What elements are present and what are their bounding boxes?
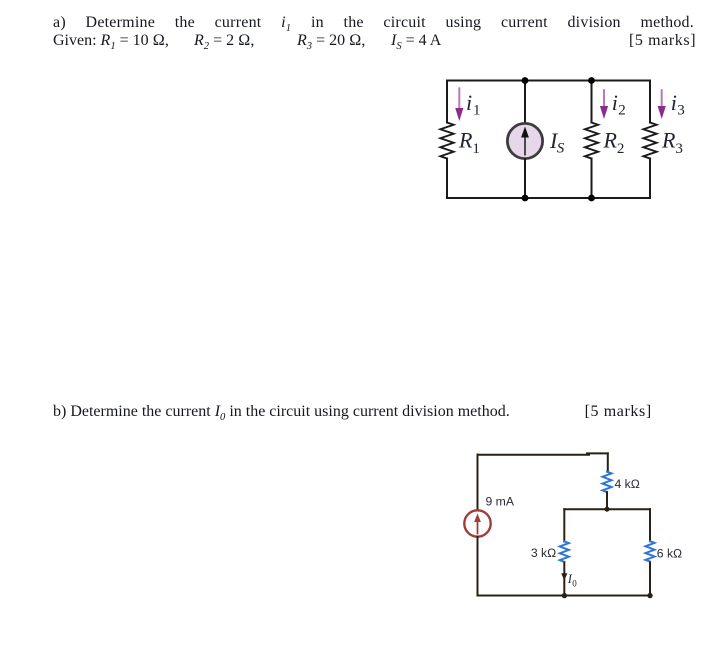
resistor R2 [585, 123, 598, 159]
junction dot top R2 [588, 77, 595, 84]
label R1 [458, 128, 480, 158]
svg-text:1: 1 [473, 103, 481, 119]
wire R2 branch lower [591, 159, 593, 199]
current source IS [507, 123, 542, 158]
label 9mA [486, 495, 515, 509]
svg-text:1: 1 [472, 141, 480, 157]
svg-text:2: 2 [618, 103, 626, 119]
svg-text:3: 3 [675, 141, 683, 157]
resistor R1 [440, 123, 453, 159]
wire bottom (circuit a) [447, 197, 650, 199]
junction dot 4k-middle [605, 507, 610, 512]
svg-text:R: R [603, 128, 618, 153]
wire bottom (circuit b) [478, 595, 651, 597]
svg-text:6 kΩ: 6 kΩ [657, 547, 683, 561]
wire Is branch lower [524, 159, 526, 198]
svg-text:2: 2 [617, 141, 625, 157]
wire R2 branch upper [591, 81, 593, 123]
wire 3k branch upper [563, 509, 565, 541]
current source 9mA [464, 510, 490, 536]
junction dot top Is [522, 77, 529, 84]
label i2 [612, 90, 626, 119]
svg-text:i: i [612, 90, 618, 115]
svg-text:i: i [466, 90, 472, 115]
question a) text line 1 [53, 14, 694, 38]
wire left branch upper (circuit b) [477, 455, 479, 511]
wire middle horizontal [564, 508, 650, 510]
wire Is branch upper [524, 81, 526, 124]
resistor 4k [603, 472, 612, 492]
resistor R3 [643, 123, 656, 159]
wire R3 branch lower [649, 159, 651, 199]
wire R3 branch upper [649, 81, 651, 123]
svg-text:S: S [557, 141, 565, 157]
svg-text:R: R [458, 128, 473, 153]
wire left branch upper [446, 81, 448, 123]
junction dot bottom Is [522, 195, 529, 202]
svg-text:3 kΩ: 3 kΩ [531, 546, 557, 560]
wire 4k branch upper [607, 453, 609, 471]
junction dot bottom R2 [588, 195, 595, 202]
wire 6k branch lower [649, 563, 651, 596]
junction dot bottom 6k [647, 593, 652, 598]
resistor 3k [560, 541, 569, 561]
marks b) [585, 403, 652, 421]
junction dot bottom 3k [562, 593, 567, 598]
label R3 [661, 128, 683, 158]
svg-text:3: 3 [677, 103, 685, 119]
wire top (circuit b) [478, 453, 608, 454]
label i3 [671, 90, 685, 119]
svg-text:0: 0 [572, 579, 577, 589]
label 4k [615, 477, 641, 491]
svg-text:4 kΩ: 4 kΩ [615, 477, 641, 491]
label i1 [466, 90, 481, 119]
wire left branch lower [446, 159, 448, 199]
wire top (circuit a) [447, 80, 650, 82]
wire left branch lower (circuit b) [477, 537, 479, 596]
marks a) [629, 32, 696, 50]
label IS [549, 128, 565, 157]
wire 3k branch lower [563, 563, 565, 596]
resistor 6k [646, 541, 655, 561]
label R2 [603, 128, 625, 158]
current arrow i1 [455, 88, 463, 121]
current arrow I0 [561, 573, 567, 580]
current arrow i3 [658, 90, 666, 119]
wire 6k branch upper [649, 509, 651, 541]
svg-text:i: i [671, 90, 677, 115]
wire 4k branch lower [606, 492, 608, 509]
question b) text [53, 403, 510, 427]
label I0 [567, 572, 578, 589]
svg-text:9 mA: 9 mA [486, 495, 515, 509]
current arrow i2 [600, 90, 608, 119]
label 3k [531, 546, 557, 560]
label 6k [657, 547, 683, 561]
svg-text:R: R [661, 128, 676, 153]
question a) given values line [53, 32, 169, 56]
